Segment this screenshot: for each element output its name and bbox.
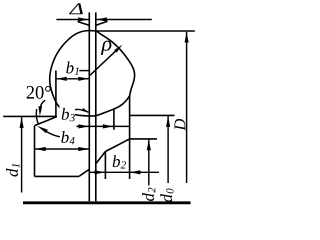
right step extension — [130, 138, 157, 140]
arrowhead b4 right — [78, 147, 89, 151]
groove shelf left — [3, 115, 57, 117]
arrowhead b4 left — [35, 147, 46, 151]
arrowhead b3 leader — [82, 108, 89, 113]
arrowhead delta left — [78, 17, 89, 21]
delta arrow right line — [96, 19, 152, 21]
d2 dimension line — [148, 140, 150, 186]
left flare diagonal — [79, 169, 89, 176]
arrowhead b2 left — [95, 170, 106, 174]
right ledge extension d0 — [130, 114, 175, 116]
delta arrow left line — [56, 19, 88, 21]
arrowhead b1 right — [78, 77, 89, 81]
slit mouth chamfer left — [78, 22, 90, 26]
rho radius arrow line — [90, 47, 120, 75]
d1 dimension line — [21, 117, 23, 192]
arrowhead b3 at slit — [78, 124, 89, 128]
arrowhead rho — [114, 45, 122, 53]
label b1 — [66, 62, 78, 75]
slit left wall — [88, 12, 90, 201]
20deg leader curve — [40, 100, 45, 110]
label rho — [101, 41, 111, 55]
20deg shoulder diagonal — [35, 117, 57, 126]
b4 leader curve — [45, 130, 60, 137]
body left wall — [34, 126, 36, 177]
b1 dimension line — [56, 78, 89, 80]
b1 leader dash — [79, 70, 89, 72]
label delta — [69, 3, 83, 14]
arrowhead b1 left — [56, 77, 66, 81]
cavity outline right arc — [96, 31, 134, 96]
label 20deg — [27, 86, 51, 99]
cavity bottom-right arc — [96, 96, 130, 116]
right body wall — [129, 96, 131, 179]
label b4 — [60, 130, 77, 146]
arrowhead d1 up — [20, 117, 24, 128]
axis baseline — [23, 201, 191, 204]
D dimension line — [186, 32, 188, 183]
b2 dimension line — [89, 171, 159, 173]
b3 leader hook — [75, 109, 89, 112]
label b2 — [113, 155, 126, 168]
body bottom left — [35, 175, 80, 177]
right flare diagonal upper — [105, 139, 129, 152]
20deg angle arc — [36, 109, 38, 124]
arrowhead d0 up — [166, 116, 170, 127]
b3 dimension line — [77, 125, 130, 127]
right flare diagonal lower — [96, 152, 106, 164]
extension tick V10 — [113, 109, 115, 130]
arrowhead b2 right — [130, 170, 141, 174]
slit right wall — [95, 12, 97, 201]
left groove wall — [55, 71, 57, 117]
label b3 — [60, 106, 76, 123]
label d0 — [160, 188, 173, 202]
arrowhead 20deg lower — [37, 126, 48, 133]
extension tick V11 — [104, 152, 106, 180]
label d1 — [6, 164, 19, 177]
top rim extension line D — [96, 30, 195, 32]
arrowhead b3 at tick — [103, 124, 114, 128]
cavity outline left arc — [50, 31, 97, 116]
arrowhead D up — [185, 32, 189, 43]
arrowhead d2 up — [147, 140, 151, 151]
b4 dimension line — [35, 148, 89, 150]
d0 dimension line — [167, 116, 169, 183]
arrowhead delta right — [96, 17, 107, 21]
slit mouth chamfer right — [96, 21, 108, 25]
label D — [175, 119, 186, 131]
arrowhead 20deg upper — [38, 106, 42, 116]
label d2 — [142, 188, 155, 201]
